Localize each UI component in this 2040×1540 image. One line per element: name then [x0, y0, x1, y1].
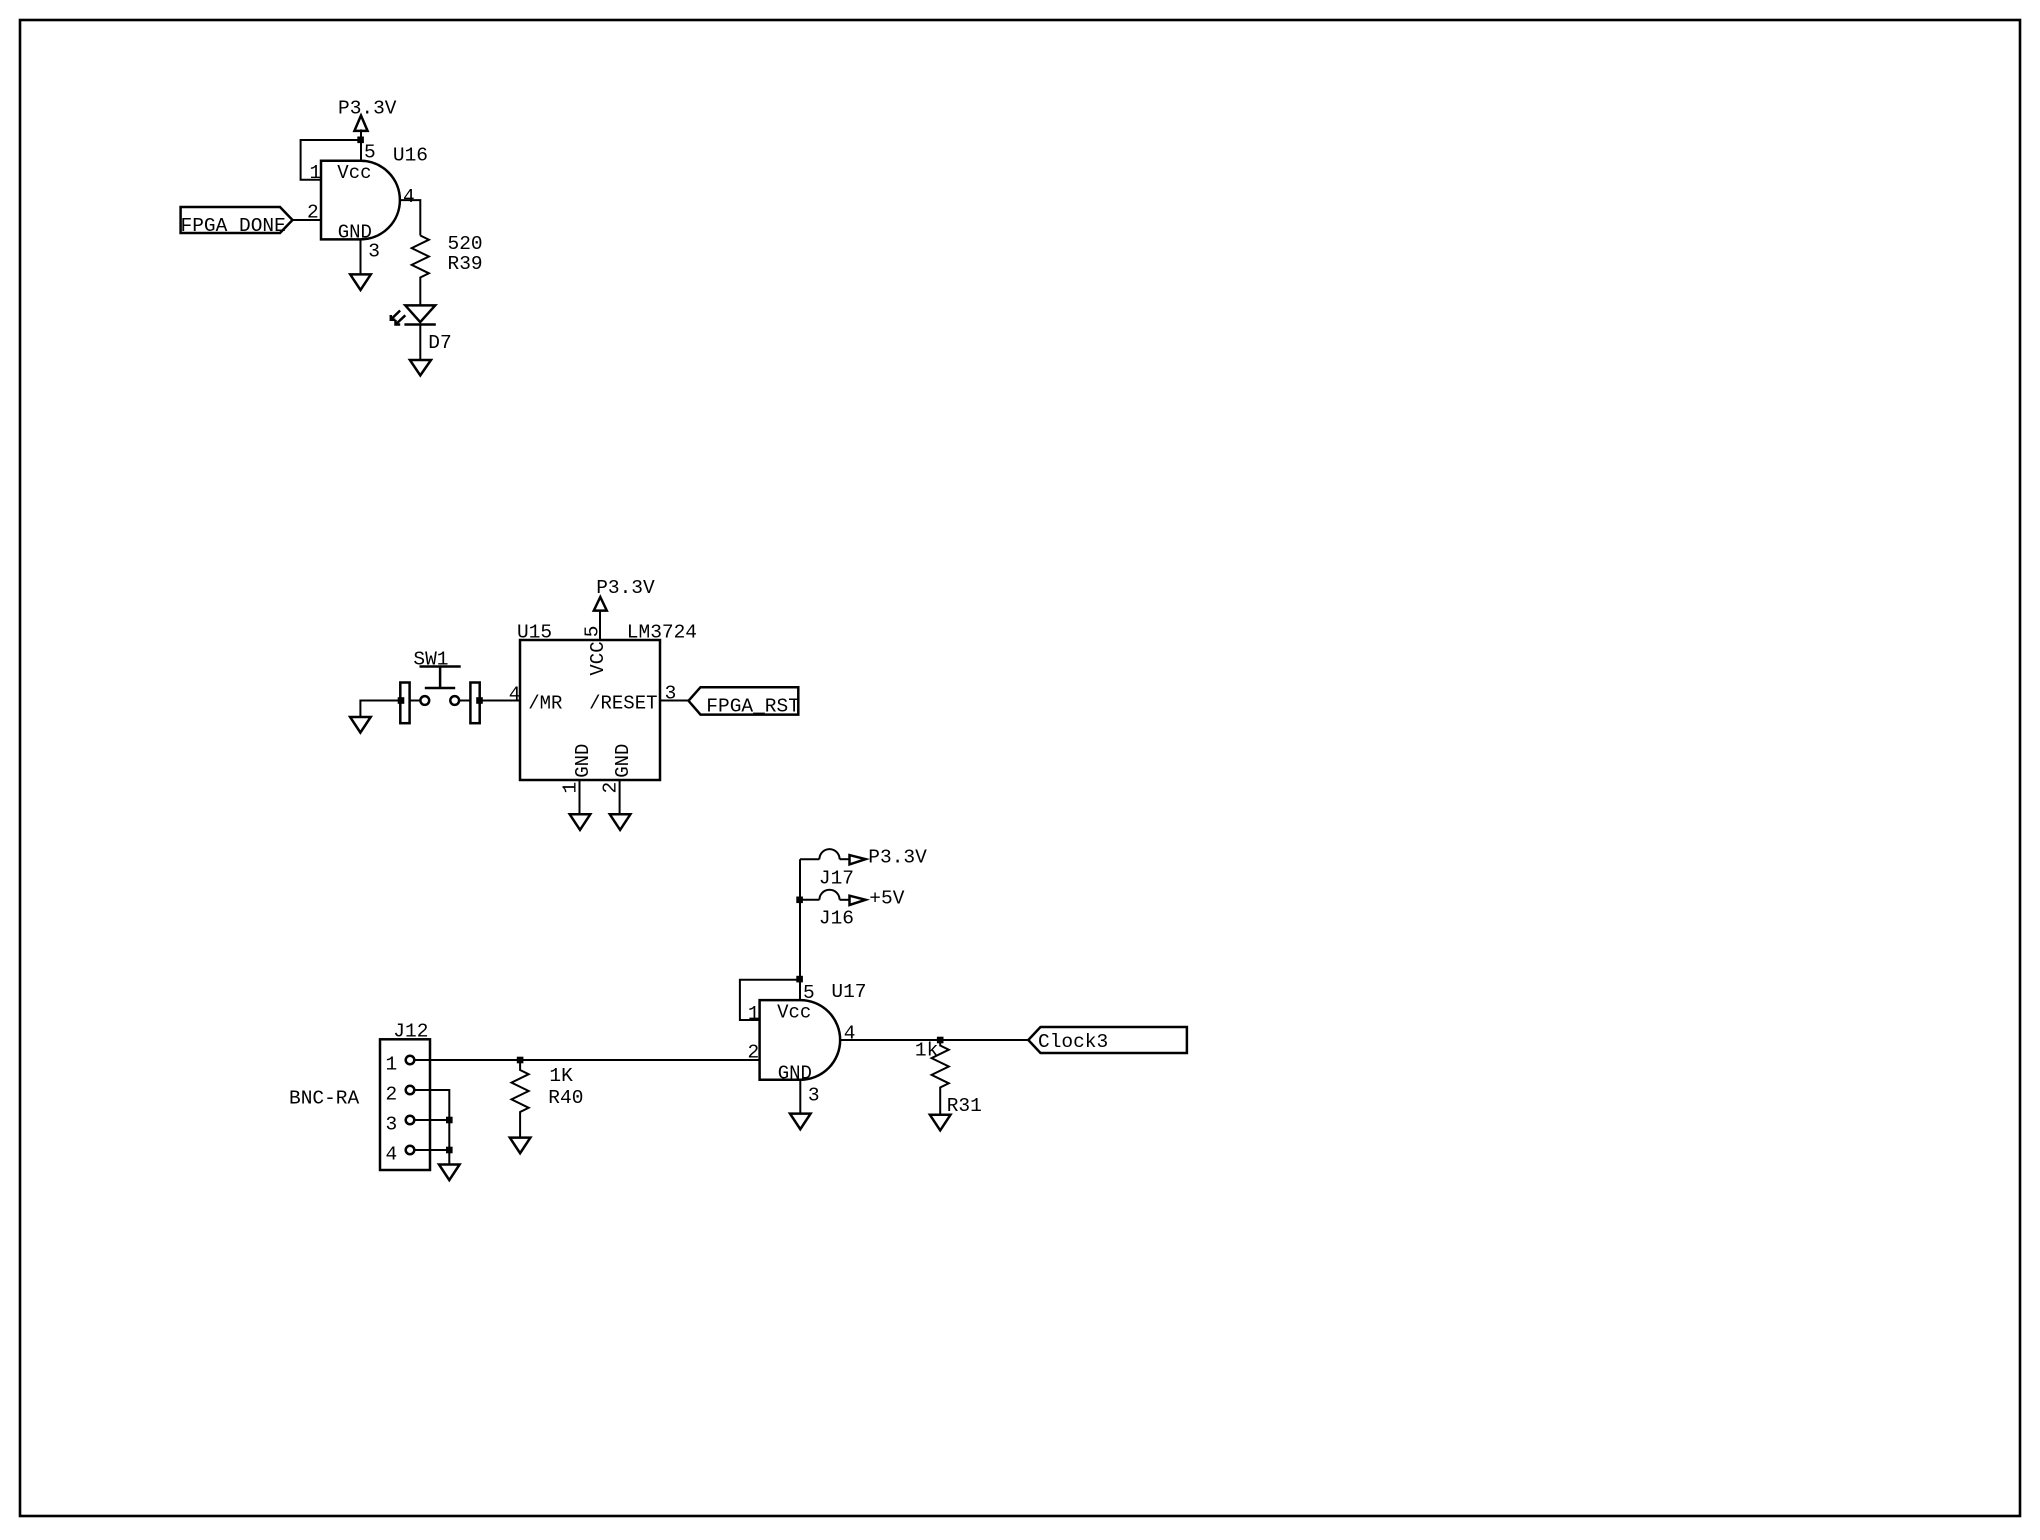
svg-text:GND: GND — [338, 222, 372, 244]
svg-text:SW1: SW1 — [413, 648, 448, 670]
svg-text:Clock3: Clock3 — [1038, 1031, 1108, 1053]
svg-text:2: 2 — [386, 1084, 398, 1106]
svg-text:1: 1 — [386, 1054, 398, 1076]
svg-text:+5V: +5V — [869, 887, 904, 909]
svg-text:2: 2 — [307, 201, 319, 223]
svg-text:2: 2 — [600, 782, 622, 794]
svg-text:3: 3 — [665, 683, 677, 705]
svg-text:R40: R40 — [548, 1087, 583, 1109]
svg-text:Vcc: Vcc — [777, 1001, 811, 1023]
svg-text:LM3724: LM3724 — [627, 622, 697, 644]
svg-text:J12: J12 — [393, 1020, 428, 1042]
svg-text:1: 1 — [310, 162, 322, 184]
svg-text:1k: 1k — [915, 1040, 938, 1062]
svg-text:J16: J16 — [819, 908, 854, 930]
svg-text:BNC-RA: BNC-RA — [289, 1087, 360, 1109]
svg-text:P3.3V: P3.3V — [596, 577, 655, 599]
svg-text:GND: GND — [572, 744, 594, 778]
svg-text:VCC: VCC — [587, 641, 609, 675]
svg-text:GND: GND — [778, 1062, 812, 1084]
svg-text:D7: D7 — [428, 332, 451, 354]
svg-text:5: 5 — [582, 626, 604, 638]
svg-text:1: 1 — [560, 782, 582, 794]
svg-text:520: 520 — [448, 233, 483, 255]
svg-text:R31: R31 — [947, 1095, 982, 1117]
svg-text:FPGA_RST: FPGA_RST — [706, 696, 800, 718]
svg-text:U17: U17 — [831, 981, 866, 1003]
svg-text:/RESET: /RESET — [589, 693, 657, 715]
svg-text:4: 4 — [386, 1144, 398, 1166]
svg-text:P3.3V: P3.3V — [338, 98, 397, 120]
svg-text:R39: R39 — [448, 253, 483, 275]
svg-text:U16: U16 — [393, 145, 428, 167]
svg-text:3: 3 — [368, 241, 380, 263]
svg-text:2: 2 — [748, 1042, 760, 1064]
svg-text:P3.3V: P3.3V — [868, 846, 927, 868]
svg-text:FPGA_DONE: FPGA_DONE — [181, 215, 286, 237]
svg-text:GND: GND — [612, 744, 634, 778]
svg-text:J17: J17 — [819, 868, 854, 890]
svg-text:3: 3 — [808, 1084, 820, 1106]
svg-text:4: 4 — [509, 684, 521, 706]
svg-text:3: 3 — [386, 1114, 398, 1136]
svg-text:4: 4 — [844, 1023, 856, 1045]
svg-text:Vcc: Vcc — [337, 162, 371, 184]
svg-text:/MR: /MR — [528, 693, 562, 715]
svg-text:1: 1 — [748, 1003, 760, 1025]
svg-text:4: 4 — [403, 186, 415, 208]
svg-text:5: 5 — [364, 142, 376, 164]
svg-text:U15: U15 — [517, 622, 552, 644]
svg-text:1K: 1K — [549, 1065, 573, 1087]
